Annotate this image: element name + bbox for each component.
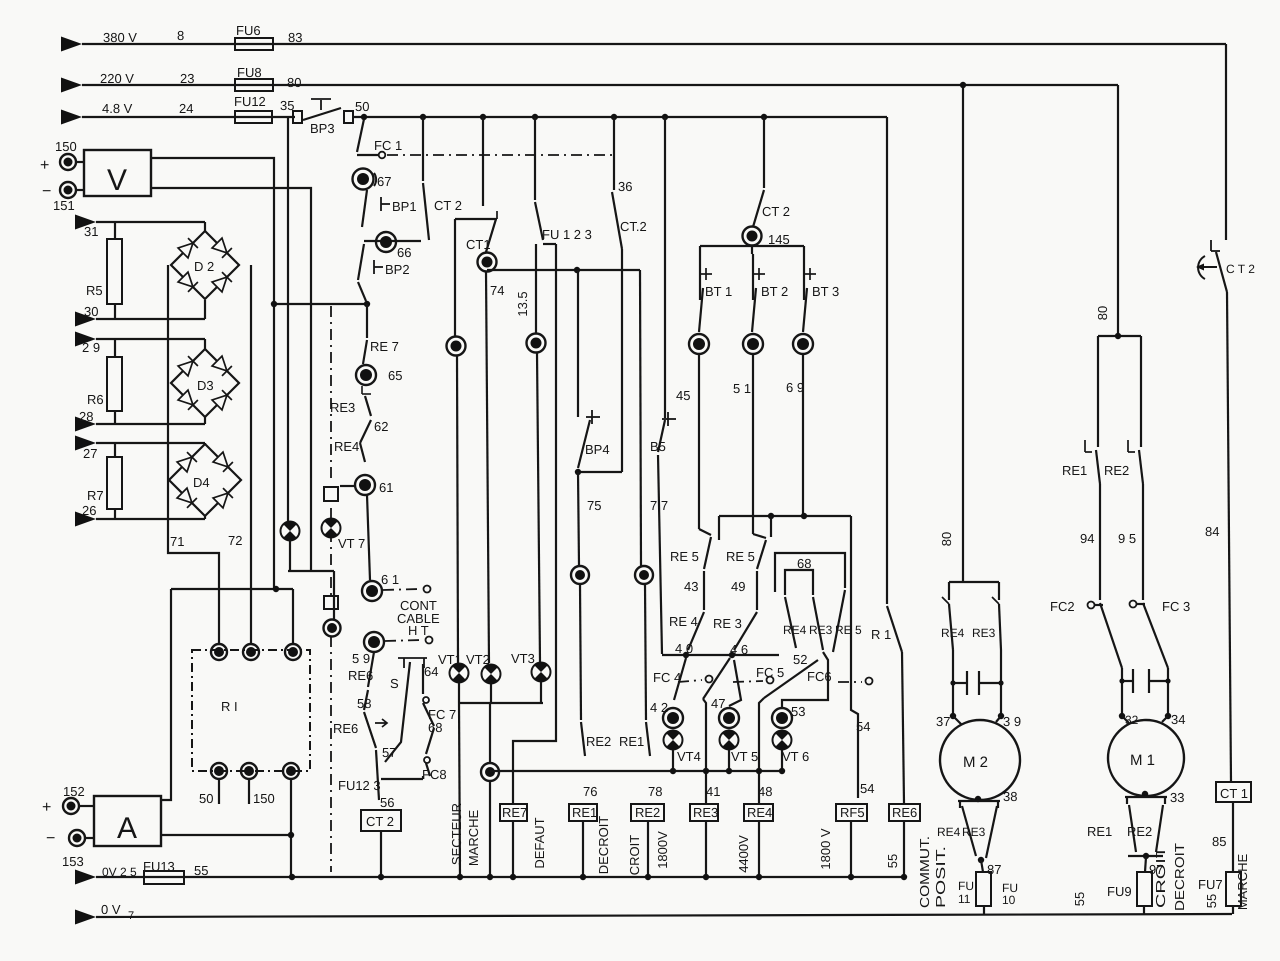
contact RE3m2b [962, 806, 997, 858]
lamp L1 [281, 117, 300, 571]
svg-text:DECROIT: DECROIT [1172, 843, 1187, 911]
wire RE3 coil feed [703, 699, 720, 803]
svg-text:C T 2: C T 2 [1226, 262, 1255, 276]
svg-text:COMMUT.: COMMUT. [917, 836, 932, 908]
contact FC7 [423, 664, 456, 735]
wire CT1 fixed [455, 219, 497, 337]
label 4.8 V [102, 101, 133, 116]
svg-text:B5: B5 [650, 439, 666, 454]
svg-text:55: 55 [1072, 892, 1087, 906]
node 145 [743, 227, 790, 248]
svg-text:RE1: RE1 [572, 805, 597, 820]
wire FU123 split [536, 244, 556, 333]
svg-text:SECTEUR: SECTEUR [449, 803, 464, 865]
contact RE1m1 [1062, 440, 1100, 484]
linkage 61 dashed [383, 586, 431, 593]
cable box upper [324, 487, 338, 501]
capacitor C-M1 [1119, 668, 1170, 716]
wire RE7 coil feed [513, 244, 556, 803]
lamp VT2 [466, 652, 501, 684]
label 69 [786, 380, 804, 395]
svg-text:CT.2: CT.2 [620, 219, 647, 234]
wire S-FC8 join [381, 776, 423, 779]
wire 50bus drop [886, 117, 888, 604]
svg-text:RE2: RE2 [1104, 463, 1129, 478]
linkage 59 dashed [385, 637, 433, 644]
svg-text:48: 48 [758, 784, 772, 799]
wire BT1 down [699, 354, 711, 535]
contact FC6 [764, 660, 873, 698]
svg-text:M 1: M 1 [1130, 752, 1155, 769]
svg-text:55: 55 [885, 854, 900, 868]
relay coil RF5 [836, 804, 867, 877]
contact FC2 [1050, 599, 1122, 668]
wire 31 [96, 222, 205, 232]
contact BT1 [699, 254, 732, 332]
contact RE3c [809, 597, 833, 650]
contact CT2r [1196, 240, 1255, 292]
svg-text:76: 76 [583, 784, 597, 799]
svg-text:72: 72 [228, 533, 242, 548]
svg-text:380 V: 380 V [103, 30, 137, 45]
contact BP5 [650, 412, 676, 454]
svg-text:D4: D4 [193, 475, 210, 490]
svg-text:FC 1: FC 1 [374, 138, 402, 153]
node 34 [1165, 712, 1186, 727]
svg-text:FC2: FC2 [1050, 599, 1075, 614]
wire 94 [1080, 484, 1100, 600]
svg-text:RE4: RE4 [783, 623, 807, 637]
wire 45 drop [665, 117, 690, 418]
contact BT3 [803, 254, 839, 332]
svg-text:26: 26 [82, 503, 96, 518]
label 1800Vb [818, 828, 833, 870]
contact FC3 [1130, 599, 1191, 668]
wire 95 [1118, 484, 1143, 600]
svg-text:65: 65 [388, 368, 402, 383]
bridge rectifier D2 [171, 231, 239, 299]
label POSIT [933, 846, 948, 908]
arrow terminal 30 [75, 304, 98, 327]
svg-text:MARCHE: MARCHE [466, 810, 481, 867]
wire defaut lower [580, 584, 581, 720]
label 55 bus [194, 863, 208, 878]
fuse FU8 [235, 65, 273, 91]
wire join y571 [288, 571, 334, 620]
svg-text:RE4: RE4 [937, 825, 961, 839]
svg-text:150: 150 [253, 791, 275, 806]
label 0 V 7 [101, 902, 134, 922]
contact BP4 [578, 410, 610, 468]
lamp VT4 [664, 730, 701, 771]
svg-text:54: 54 [856, 719, 870, 734]
wire 50 bus [353, 114, 887, 120]
ammeter A [79, 796, 161, 846]
wire SECTEUR lower [449, 703, 464, 877]
fuse FU11 [958, 860, 1018, 907]
label 76 [583, 784, 597, 799]
contact RE2m1b [1127, 805, 1163, 852]
wire A- to R1 [161, 834, 291, 836]
svg-text:84: 84 [1205, 524, 1219, 539]
svg-text:CT 2: CT 2 [762, 204, 790, 219]
svg-text:MARCHE: MARCHE [1235, 854, 1250, 911]
svg-text:78: 78 [648, 784, 662, 799]
svg-text:68: 68 [797, 556, 811, 571]
svg-text:52: 52 [793, 652, 807, 667]
svg-text:D3: D3 [197, 378, 214, 393]
svg-text:RE4: RE4 [334, 439, 359, 454]
wire 68 inner [785, 556, 813, 595]
svg-text:66: 66 [397, 245, 411, 260]
wire 71 dc-left rail [168, 265, 219, 645]
svg-text:151: 151 [53, 198, 75, 213]
svg-text:FU6: FU6 [236, 23, 261, 38]
contact BP2 [358, 244, 410, 301]
svg-text:13.5: 13.5 [515, 291, 530, 316]
label 78 [648, 784, 662, 799]
resistor R5 [86, 222, 122, 319]
svg-text:4 6: 4 6 [730, 642, 748, 657]
label wire 83 [288, 30, 302, 45]
svg-text:80: 80 [287, 75, 301, 90]
lamp 65 [356, 365, 402, 394]
svg-text:24: 24 [179, 101, 193, 116]
wire A+ riser [161, 589, 171, 800]
wire RE6 feed [902, 652, 904, 803]
lamp 61b [362, 572, 399, 601]
label 4400V [736, 835, 751, 873]
linkage FC1 dashed [387, 154, 612, 156]
svg-text:RE3: RE3 [962, 825, 986, 839]
svg-text:RE2: RE2 [586, 734, 611, 749]
wire V+ to node [151, 158, 274, 589]
wire 145 drop [763, 117, 765, 188]
svg-text:87: 87 [987, 862, 1001, 877]
svg-text:FU12: FU12 [234, 94, 266, 109]
wire right edge mid [1205, 292, 1231, 782]
svg-text:RE 3: RE 3 [713, 616, 742, 631]
wire BT2 down [753, 354, 766, 538]
contact RE4m2 [941, 582, 965, 650]
svg-text:R I: R I [221, 699, 238, 714]
arrow 380V input [61, 37, 82, 52]
svg-text:56: 56 [380, 795, 394, 810]
svg-text:BT 1: BT 1 [705, 284, 732, 299]
contact RE3b [713, 571, 757, 657]
svg-text:VT3: VT3 [511, 651, 535, 666]
svg-text:−: − [46, 830, 55, 847]
bus 0V bottom [96, 914, 1232, 917]
node j4 [635, 566, 653, 584]
label DEFAUT [532, 817, 547, 868]
contact RE5b [726, 540, 766, 594]
svg-text:71: 71 [170, 534, 184, 549]
svg-text:220 V: 220 V [100, 71, 134, 86]
wire V+ junction to R1 [171, 586, 293, 644]
voltmeter V [76, 150, 151, 197]
svg-text:4 2: 4 2 [650, 700, 668, 715]
terminal 150 [40, 139, 77, 174]
label 55 re6 [885, 854, 900, 868]
svg-text:0 V: 0 V [101, 902, 121, 917]
contact FC8 [422, 728, 447, 782]
contact RE3a [330, 396, 388, 434]
svg-text:H T: H T [408, 623, 429, 638]
svg-text:34: 34 [1171, 712, 1185, 727]
contact RE4b [669, 571, 704, 656]
svg-text:53: 53 [791, 704, 805, 719]
svg-text:R5: R5 [86, 283, 103, 298]
wire 30 [96, 300, 205, 319]
svg-text:68: 68 [428, 720, 442, 735]
lamp VT3 [511, 651, 551, 682]
svg-text:30: 30 [84, 304, 98, 319]
svg-text:FC 5: FC 5 [756, 665, 784, 680]
wire M1 left drop [1097, 336, 1099, 447]
svg-text:61: 61 [379, 480, 393, 495]
svg-text:1800 V: 1800 V [818, 828, 833, 870]
arrow bus 55 [75, 870, 96, 885]
node 66 wire [364, 232, 421, 260]
label wire 80 [287, 75, 301, 90]
label 380 V [103, 30, 137, 45]
svg-text:FC8: FC8 [422, 767, 447, 782]
wire defaut drop [578, 270, 579, 565]
svg-text:RE6: RE6 [348, 668, 373, 683]
contactor CT1 box [1216, 782, 1251, 802]
svg-text:5 1: 5 1 [733, 381, 751, 396]
svg-text:33: 33 [1170, 790, 1184, 805]
relay coil RE7 [500, 804, 527, 877]
contact S [385, 658, 427, 762]
wire R1 bot-3 to bus 55 [288, 779, 294, 877]
terminal 153 [46, 830, 85, 869]
contact BP1 [362, 190, 417, 227]
label 56 [380, 795, 394, 810]
wire right edge top [1225, 44, 1227, 240]
fuse FU7 [1198, 872, 1241, 914]
terminal R1 bot-2 [241, 763, 275, 806]
wire M2 feed [939, 82, 966, 580]
svg-text:4.8 V: 4.8 V [102, 101, 133, 116]
contact FC1 blade [357, 119, 379, 155]
svg-text:145: 145 [768, 232, 790, 247]
wire 4.8V bus left [82, 116, 295, 118]
svg-text:62: 62 [374, 419, 388, 434]
svg-text:VT1: VT1 [438, 652, 462, 667]
svg-text:CT 2: CT 2 [434, 198, 462, 213]
wire to FU12-3 [376, 750, 379, 800]
svg-text:RE4: RE4 [941, 626, 965, 640]
node BT3 [793, 334, 813, 354]
svg-text:4 0: 4 0 [675, 641, 693, 656]
wire bus 516 [719, 513, 851, 540]
contact CT2b [753, 190, 790, 227]
lamp 59 [352, 632, 384, 666]
svg-text:M 2: M 2 [963, 754, 988, 771]
svg-text:BP1: BP1 [392, 199, 417, 214]
svg-text:DEFAUT: DEFAUT [532, 817, 547, 868]
wire 54 drop [851, 516, 874, 798]
node j1 [447, 337, 466, 356]
svg-text:FC 4: FC 4 [653, 670, 681, 685]
node 87 [978, 857, 1002, 877]
svg-text:45: 45 [676, 388, 690, 403]
wire junction 304 [271, 301, 370, 307]
node j2 [527, 334, 546, 353]
wire M1 bar [1098, 333, 1141, 339]
svg-text:+: + [42, 799, 51, 816]
svg-text:R 1: R 1 [871, 627, 891, 642]
wire 52 to lamp53 [782, 652, 828, 707]
svg-text:75: 75 [587, 498, 601, 513]
svg-text:152: 152 [63, 784, 85, 799]
contact RE1c [619, 722, 650, 756]
svg-text:FC 3: FC 3 [1162, 599, 1190, 614]
wire node74 bus [487, 267, 640, 273]
svg-text:7: 7 [128, 910, 134, 922]
wire 220V bus [82, 84, 1118, 86]
wire 47 link [711, 660, 741, 711]
arrow terminal 31 [75, 215, 98, 240]
lamp 61 [355, 475, 393, 495]
contact RE4c [783, 597, 807, 648]
wire 28 [96, 417, 205, 424]
svg-text:VT2: VT2 [466, 652, 490, 667]
node j3 [571, 566, 589, 584]
relay coil RE3 [690, 804, 718, 877]
svg-text:43: 43 [684, 579, 698, 594]
svg-text:FU: FU [958, 879, 974, 893]
terminal R1 bot-1 [199, 763, 227, 806]
arrow bus 0V [75, 910, 96, 925]
contact RE5a [670, 537, 711, 594]
svg-text:27: 27 [83, 446, 97, 461]
svg-text:67: 67 [377, 174, 391, 189]
svg-text:54: 54 [860, 781, 874, 796]
contact RE6b [333, 690, 387, 748]
wire FU11 to bus [983, 906, 985, 915]
wire BP4 bar [575, 469, 622, 513]
svg-text:153: 153 [62, 854, 84, 869]
label DECROIT [596, 816, 611, 875]
svg-text:RE 7: RE 7 [370, 339, 399, 354]
svg-text:BP4: BP4 [585, 442, 610, 457]
svg-text:10: 10 [1002, 893, 1016, 907]
wire M1 feed [1095, 85, 1118, 336]
contactor coil CT2 box [361, 810, 401, 831]
svg-text:BP2: BP2 [385, 262, 410, 277]
svg-text:9 5: 9 5 [1118, 531, 1136, 546]
node BT1 [689, 334, 709, 354]
arrow terminal 27 [75, 436, 97, 462]
svg-text:83: 83 [288, 30, 302, 45]
label CROIT [627, 835, 642, 876]
svg-text:−: − [42, 183, 51, 200]
label 45b [0, 0, 1, 1]
label 220 V [100, 71, 134, 86]
wire 36 lower [621, 249, 623, 472]
svg-text:FU 1 2 3: FU 1 2 3 [542, 227, 592, 242]
lamp VT7 [322, 518, 366, 551]
svg-text:+: + [40, 157, 49, 174]
wire 68 box [775, 553, 845, 592]
capacitor C-M2 [950, 650, 1003, 716]
svg-text:49: 49 [731, 579, 745, 594]
svg-text:RE4: RE4 [747, 805, 772, 820]
relay coil RE6 [889, 804, 920, 877]
lamp 47 [719, 708, 739, 728]
svg-text:BP3: BP3 [310, 121, 335, 136]
contact RE1m1b [1087, 805, 1136, 852]
wire bus 40-46 [662, 652, 779, 658]
svg-text:31: 31 [84, 224, 98, 239]
svg-text:RE 5: RE 5 [670, 549, 699, 564]
svg-text:FC6: FC6 [807, 669, 832, 684]
wire croit drop [640, 270, 641, 566]
svg-text:VT 5: VT 5 [731, 749, 758, 764]
label wire 8 [177, 28, 184, 43]
svg-text:41: 41 [706, 784, 720, 799]
svg-text:RE1: RE1 [1062, 463, 1087, 478]
label DECROIT m1 [1172, 843, 1187, 911]
svg-text:POSIT.: POSIT. [933, 846, 948, 908]
wire MARCHE line [466, 703, 499, 877]
node cable [324, 620, 341, 637]
cable linkage dashed [330, 306, 332, 872]
label node 50 [355, 99, 369, 114]
contact RE2c [581, 722, 611, 756]
node BT2 [743, 334, 763, 354]
wire 77 drop [650, 455, 668, 654]
contact RE5c [833, 590, 862, 652]
svg-text:CT 2: CT 2 [366, 814, 394, 829]
label wire 35 [280, 98, 294, 113]
svg-text:R6: R6 [87, 392, 104, 407]
svg-text:7 7: 7 7 [650, 498, 668, 513]
motor M2 [940, 716, 1020, 800]
wire M1 right drop [1140, 336, 1142, 447]
svg-text:85: 85 [1212, 834, 1226, 849]
wire 61 stub left [340, 485, 355, 487]
svg-text:1800V: 1800V [655, 831, 670, 869]
resistor box R1 [192, 650, 310, 771]
svg-text:74: 74 [490, 283, 504, 298]
wire BT bar [700, 246, 804, 254]
svg-text:VT 6: VT 6 [782, 749, 809, 764]
resistor R6 [87, 339, 122, 424]
svg-text:RE1: RE1 [1087, 824, 1112, 839]
switch BP3 [293, 99, 353, 136]
relay coil RE1 [569, 804, 597, 877]
svg-text:RE7: RE7 [502, 805, 527, 820]
svg-text:CROIT: CROIT [627, 835, 642, 876]
svg-text:VT 7: VT 7 [338, 536, 365, 551]
svg-text:8: 8 [177, 28, 184, 43]
lamp VT5 [720, 730, 759, 771]
fuse-switch FU123 [535, 117, 592, 242]
bridge rectifier D4 [169, 444, 241, 516]
svg-text:RE3: RE3 [330, 400, 355, 415]
svg-text:37: 37 [936, 714, 950, 729]
svg-text:RE2: RE2 [1127, 824, 1152, 839]
arrow terminal 26 [75, 503, 96, 527]
svg-text:RE3: RE3 [809, 623, 833, 637]
svg-text:RE 4: RE 4 [669, 614, 698, 629]
svg-text:28: 28 [79, 409, 93, 424]
svg-text:VT4: VT4 [677, 749, 701, 764]
